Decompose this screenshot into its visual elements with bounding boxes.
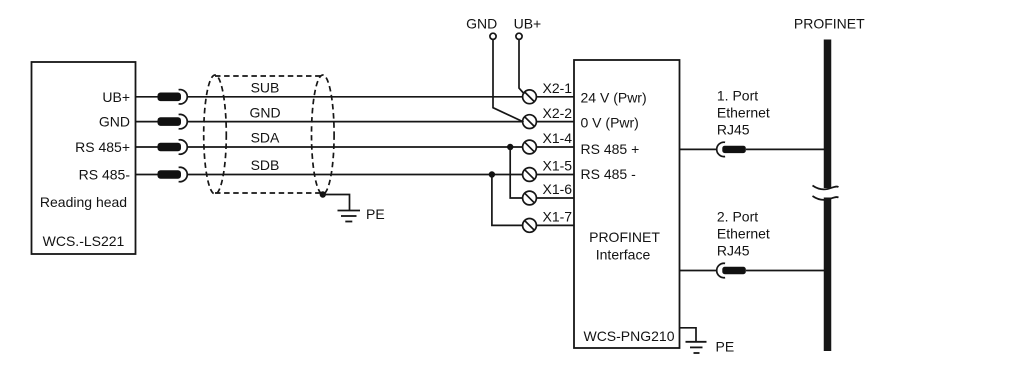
connector RJ45 port 2 socket (717, 263, 725, 277)
reading head box (32, 62, 136, 254)
connector RJ45 port 1 plug (722, 146, 746, 153)
svg-text:SDA: SDA (251, 130, 280, 146)
svg-text:UB+: UB+ (102, 89, 130, 105)
svg-text:RS 485+: RS 485+ (75, 139, 130, 155)
svg-text:1. Port: 1. Port (717, 87, 758, 103)
bus break (813, 186, 839, 190)
wire port 1 from interface (680, 148, 717, 150)
wire X2-1 to interface (536, 96, 574, 98)
svg-text:SDB: SDB (251, 157, 280, 173)
svg-text:RS 485-: RS 485- (79, 167, 131, 183)
wire GND from box (136, 121, 181, 123)
ground PE shield (338, 211, 361, 222)
terminal X1-6 (523, 191, 537, 205)
wire shield to PE (323, 195, 350, 211)
svg-text:Ethernet: Ethernet (717, 225, 770, 241)
terminal X1-7 (523, 219, 537, 233)
svg-text:Ethernet: Ethernet (717, 104, 770, 120)
node UB+ supply (516, 33, 522, 39)
shield junction (320, 191, 326, 197)
connector plug UB+ (158, 93, 182, 102)
wire SDB to X1-7 (492, 175, 523, 226)
svg-text:24 V (Pwr): 24 V (Pwr) (581, 89, 647, 105)
svg-text:RS 485 +: RS 485 + (581, 141, 640, 157)
svg-text:RJ45: RJ45 (717, 242, 750, 258)
connector RJ45 port 1 socket (717, 142, 725, 156)
junction SDB (489, 171, 495, 177)
svg-text:Reading head: Reading head (40, 194, 127, 210)
ground PE interface (686, 342, 707, 353)
terminal X1-5 (523, 168, 537, 182)
wire port 2 to bus (746, 270, 828, 272)
connector socket RS 485- (179, 167, 188, 181)
svg-text:GND: GND (99, 114, 130, 130)
svg-text:PROFINET: PROFINET (589, 229, 660, 245)
PROFINET interface box (574, 60, 680, 348)
svg-text:UB+: UB+ (514, 15, 542, 31)
svg-text:X2-1: X2-1 (543, 80, 573, 96)
connector socket UB+ (179, 90, 188, 104)
wire GND to X2-2 (188, 121, 523, 123)
svg-text:2. Port: 2. Port (717, 208, 758, 224)
junction SDA (507, 144, 513, 150)
terminal X1-4 (523, 140, 537, 154)
svg-text:WCS-PNG210: WCS-PNG210 (583, 328, 674, 344)
terminal X2-2 (523, 115, 537, 129)
connector socket RS 485+ (179, 140, 188, 154)
svg-text:X1-4: X1-4 (543, 130, 573, 146)
wire X1-6 to interface (536, 197, 574, 199)
connector socket GND (179, 114, 188, 128)
wire port 1 to bus (746, 148, 828, 150)
node GND supply (490, 33, 496, 39)
terminal X2-1 (523, 90, 537, 104)
cable shield cylinder (204, 75, 334, 194)
wire X1-4 to interface (536, 146, 574, 148)
svg-text:X1-5: X1-5 (543, 158, 573, 174)
wire SDA to X1-4 (188, 146, 523, 148)
wire X1-7 to interface (536, 224, 574, 226)
svg-text:X2-2: X2-2 (543, 105, 573, 121)
svg-text:PE: PE (716, 339, 735, 355)
svg-text:Interface: Interface (596, 247, 651, 263)
connector plug GND (158, 117, 182, 126)
svg-text:X1-7: X1-7 (543, 209, 573, 225)
wire RS 485+ from box (136, 146, 181, 148)
wire SDA to X1-6 (510, 147, 522, 198)
wire UB+ from box (136, 96, 181, 98)
connector plug RS 485+ (158, 143, 182, 152)
wire SUB to X2-1 (188, 96, 523, 98)
wire UB+ supply to X2-1 (519, 39, 524, 94)
wire PE from interface (680, 328, 697, 342)
svg-text:WCS.-LS221: WCS.-LS221 (43, 233, 125, 249)
wire GND supply to X2-2 (493, 39, 524, 122)
svg-text:PE: PE (366, 206, 385, 222)
wire X2-2 to interface (536, 121, 574, 123)
svg-text:RJ45: RJ45 (717, 121, 750, 137)
PROFINET bus (824, 40, 832, 189)
connector plug RS 485- (158, 170, 182, 179)
wire RS 485- from box (136, 174, 181, 176)
svg-text:X1-6: X1-6 (543, 181, 573, 197)
connector RJ45 port 2 plug (722, 267, 746, 274)
svg-text:SUB: SUB (251, 80, 280, 96)
wire SDB to X1-5 (188, 174, 523, 176)
wire port 2 from interface (680, 270, 717, 272)
svg-text:RS 485 -: RS 485 - (581, 166, 637, 182)
svg-text:PROFINET: PROFINET (794, 15, 865, 31)
wire X1-5 to interface (536, 174, 574, 176)
svg-text:GND: GND (249, 104, 280, 120)
svg-text:GND: GND (466, 15, 497, 31)
svg-text:0 V (Pwr): 0 V (Pwr) (581, 114, 639, 130)
